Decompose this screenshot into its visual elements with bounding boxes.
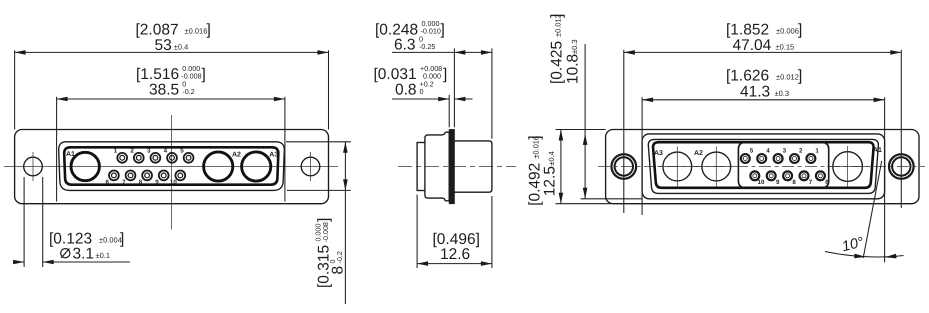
svg-text:±0.4: ±0.4 (174, 42, 189, 51)
dim 47.04: text [1.852 ±0.006] (726, 21, 802, 54)
contact A3 (rear) (657, 147, 697, 187)
svg-text:]: ] (798, 68, 802, 85)
small contacts top row (1-5) (114, 148, 194, 163)
dim 41.3: extension lines (641, 97, 643, 215)
dim 12.6: dimension line with arrows (417, 261, 492, 266)
mounting hole left (24, 152, 43, 181)
svg-text:-0.010: -0.010 (421, 27, 441, 36)
svg-text:53: 53 (155, 37, 172, 54)
svg-text:[1.852: [1.852 (726, 21, 769, 38)
dim 12.5: vertical dimension line with arrows (559, 130, 564, 204)
dim 53: dimension line with arrows (15, 50, 329, 55)
contact pocket divider left (738, 142, 744, 187)
dim 10.8: rotated text [0.425 ±0.012] 10.8 ±0.3 (549, 14, 566, 84)
svg-text:10.8: 10.8 (565, 54, 582, 84)
flange plate (side view, section) (449, 130, 454, 204)
rear insulator body (side view) (454, 141, 492, 192)
mounting hole right (301, 152, 320, 181)
svg-text:9: 9 (155, 179, 159, 186)
dim 0.8: dimension line, outside arrows (392, 97, 473, 102)
svg-text:±0.15: ±0.15 (776, 42, 795, 51)
dim 8: vertical dimension line with arrows (343, 142, 348, 304)
dim 12.5: rotated text [0.492 ±0.016] 12.5 ±0.4 (527, 135, 544, 205)
mating shell lip (side view) (417, 143, 425, 191)
svg-text:8: 8 (330, 266, 347, 275)
svg-text:]: ] (207, 21, 211, 38)
svg-text:±0.006: ±0.006 (776, 26, 799, 35)
contact A2 (rear) (696, 147, 736, 187)
svg-text:5: 5 (180, 148, 184, 155)
10 deg dimension arc with arrows (825, 252, 904, 259)
centerline horizontal (rear view, dashed) (598, 166, 925, 168)
svg-text:-0.2: -0.2 (182, 87, 194, 96)
contact pocket divider right (823, 142, 829, 187)
dim 53: text [2.087 ±0.016] (136, 21, 211, 54)
svg-text:]: ] (120, 231, 124, 248)
svg-text:A1: A1 (873, 147, 882, 154)
svg-text:4: 4 (766, 148, 770, 155)
svg-text:-0.25: -0.25 (419, 42, 435, 51)
svg-text:±0.4: ±0.4 (547, 151, 556, 166)
contact A2 (front) (204, 152, 233, 181)
svg-text:[0.425: [0.425 (549, 41, 566, 84)
shell body (side view) (425, 132, 449, 201)
svg-text:1: 1 (815, 148, 819, 155)
flange (front view) (15, 130, 329, 204)
svg-text:[1.626: [1.626 (726, 68, 769, 85)
svg-text:2: 2 (799, 148, 803, 155)
svg-text:10: 10 (170, 179, 177, 186)
contact A3 (front) (242, 152, 271, 181)
svg-text:12.6: 12.6 (440, 246, 470, 263)
centerline horizontal (front view) (4, 166, 338, 168)
svg-text:6: 6 (825, 179, 829, 186)
contact A1 (rear) (827, 146, 868, 187)
mounting hole left (rear) (612, 154, 637, 179)
dim 38.5: extension lines (56, 97, 58, 202)
svg-text:0.8: 0.8 (395, 81, 417, 98)
svg-text:-0.2: -0.2 (335, 251, 344, 263)
svg-text:]: ] (527, 135, 544, 139)
dim 41.3: text [1.626 ±0.012] (726, 68, 802, 101)
svg-text:]: ] (316, 218, 333, 222)
svg-text:9: 9 (776, 179, 780, 186)
svg-text:±0.004: ±0.004 (99, 236, 122, 245)
centerline vertical (front view) (171, 115, 173, 230)
svg-text:38.5: 38.5 (149, 81, 179, 98)
svg-text:A3: A3 (269, 151, 278, 158)
dim 41.3: dimension line with arrows (642, 98, 885, 103)
rear small contacts top row (5-1) (741, 148, 820, 163)
svg-text:A2: A2 (694, 150, 703, 157)
dim hole dia 3.1: extension lines (23, 177, 25, 267)
svg-text:±0.1: ±0.1 (96, 251, 111, 260)
svg-text:3.1: 3.1 (73, 246, 95, 263)
rear boss outline (outer) (642, 134, 885, 199)
dim 0.8: extension line (448, 95, 450, 128)
svg-text:2: 2 (130, 148, 134, 155)
svg-text:6.3: 6.3 (394, 36, 416, 53)
svg-text:]: ] (549, 14, 566, 18)
dim 53: extension lines (14, 50, 16, 129)
rear insert outline (middle) (648, 139, 878, 193)
svg-text:41.3: 41.3 (740, 83, 770, 100)
svg-text:7: 7 (809, 179, 813, 186)
svg-text:1: 1 (114, 148, 118, 155)
svg-text:A2: A2 (232, 151, 241, 158)
svg-text:A3: A3 (654, 150, 663, 157)
dim 12.5 (flange height): extension lines (556, 129, 606, 131)
svg-text:]: ] (441, 21, 445, 38)
small contacts bottom row (6-10) (106, 171, 186, 187)
dim 6.3: extension lines (453, 48, 455, 127)
mounting hole right (rear) (889, 154, 914, 179)
svg-text:5: 5 (750, 148, 754, 155)
insert insulator outline (inner, bold) (64, 147, 278, 184)
svg-text:6: 6 (106, 179, 110, 186)
svg-text:10: 10 (758, 179, 765, 186)
dim 12.6: extension lines (416, 195, 418, 269)
dim 47.04: extension lines (through part) (623, 50, 625, 213)
svg-text:[2.087: [2.087 (136, 21, 179, 38)
flange (rear view) (606, 130, 919, 204)
dim 8: rotated text [0.315 0.000/-0.008] and 8 0/-0.2 (314, 218, 333, 288)
dim 10.8 (boss height): extension line bottom (581, 198, 643, 200)
dim 38.5: dimension line with arrows (57, 97, 285, 102)
centerline (side view, dashed) (398, 166, 516, 168)
svg-text:0: 0 (420, 87, 424, 96)
svg-text:3: 3 (783, 148, 787, 155)
dim 8 (insert height): extension lines (286, 141, 351, 143)
svg-text:]: ] (443, 66, 447, 83)
rear insert insulator (inner, bold) (653, 142, 874, 188)
svg-text:±0.016: ±0.016 (185, 26, 208, 35)
dim 6.3: text [0.248 0.000/-0.010] (375, 19, 445, 53)
svg-text:3: 3 (147, 148, 151, 155)
svg-text:]: ] (202, 66, 206, 83)
dim hole dia 3.1: dimension line, outside arrows (13, 260, 130, 265)
dim 47.04: dimension line with arrows (624, 50, 902, 55)
svg-text:±0.3: ±0.3 (570, 39, 579, 54)
svg-text:±0.012: ±0.012 (776, 73, 799, 82)
svg-text:-0.008: -0.008 (321, 222, 330, 242)
dim 0.8: text [0.031 +0.008/0.000] (374, 64, 448, 98)
svg-text:]: ] (798, 21, 802, 38)
10 deg reference slant line (863, 161, 882, 258)
svg-text:12.5: 12.5 (542, 166, 559, 196)
svg-text:8: 8 (139, 179, 143, 186)
svg-text:47.04: 47.04 (733, 37, 772, 54)
svg-text:7: 7 (122, 179, 126, 186)
insert shell outline (outer) (59, 142, 285, 191)
dim 38.5: text [1.516 0.000/-0.008] (136, 64, 206, 98)
svg-text:8: 8 (792, 179, 796, 186)
dim 12.6: text [0.496] (433, 231, 480, 263)
svg-text:A1: A1 (66, 151, 75, 158)
contact A1 (front) (71, 152, 99, 180)
svg-text:4: 4 (164, 148, 168, 155)
svg-text:±0.3: ±0.3 (775, 89, 790, 98)
dim 10.8: vertical dimension line with arrows and leader up (583, 44, 588, 199)
dim 6.3: dimension line, leader left (392, 50, 492, 55)
dim 3.1: text [0.123 ±0.004] (49, 231, 124, 263)
rear small contacts bottom row (10-6) (750, 171, 829, 185)
